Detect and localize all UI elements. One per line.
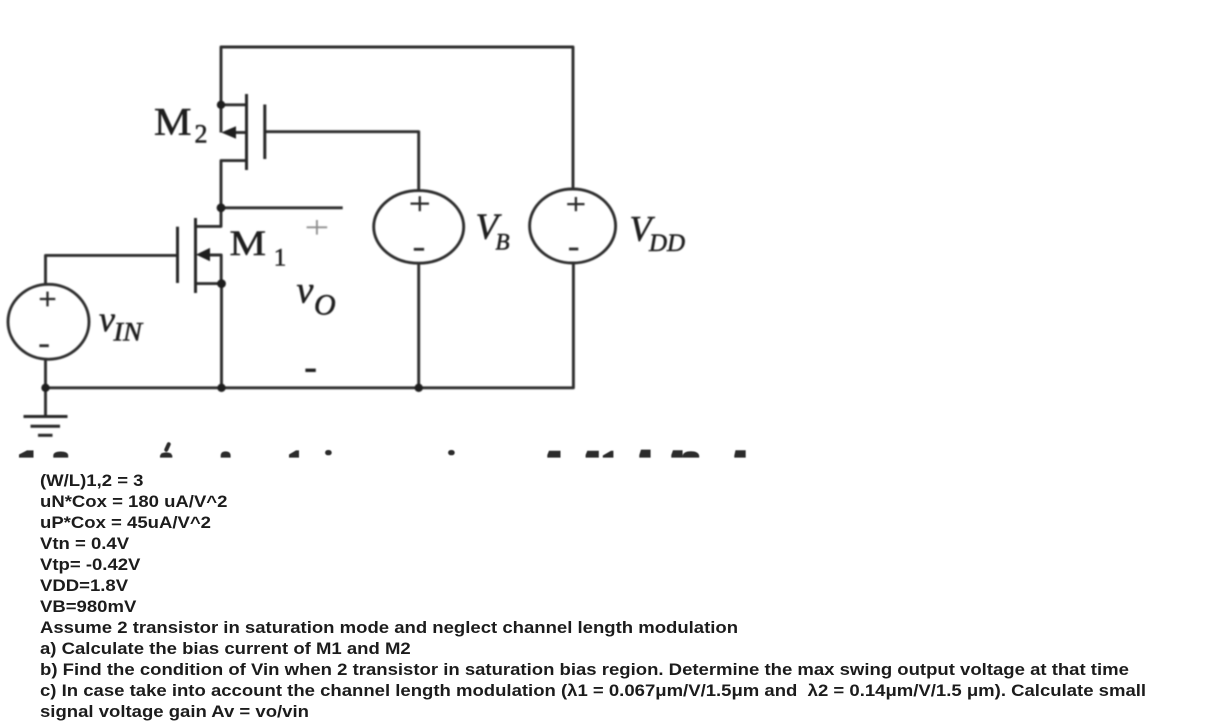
svg-text:DD: DD bbox=[648, 230, 685, 257]
svg-text:2: 2 bbox=[195, 120, 208, 149]
svg-text:B: B bbox=[496, 229, 510, 254]
svg-text:O: O bbox=[314, 289, 336, 322]
svg-text:M: M bbox=[230, 223, 267, 263]
svg-text:1: 1 bbox=[274, 244, 287, 271]
svg-text:IN: IN bbox=[112, 318, 143, 347]
svg-text:M: M bbox=[154, 100, 192, 143]
svg-text:v: v bbox=[297, 270, 314, 312]
